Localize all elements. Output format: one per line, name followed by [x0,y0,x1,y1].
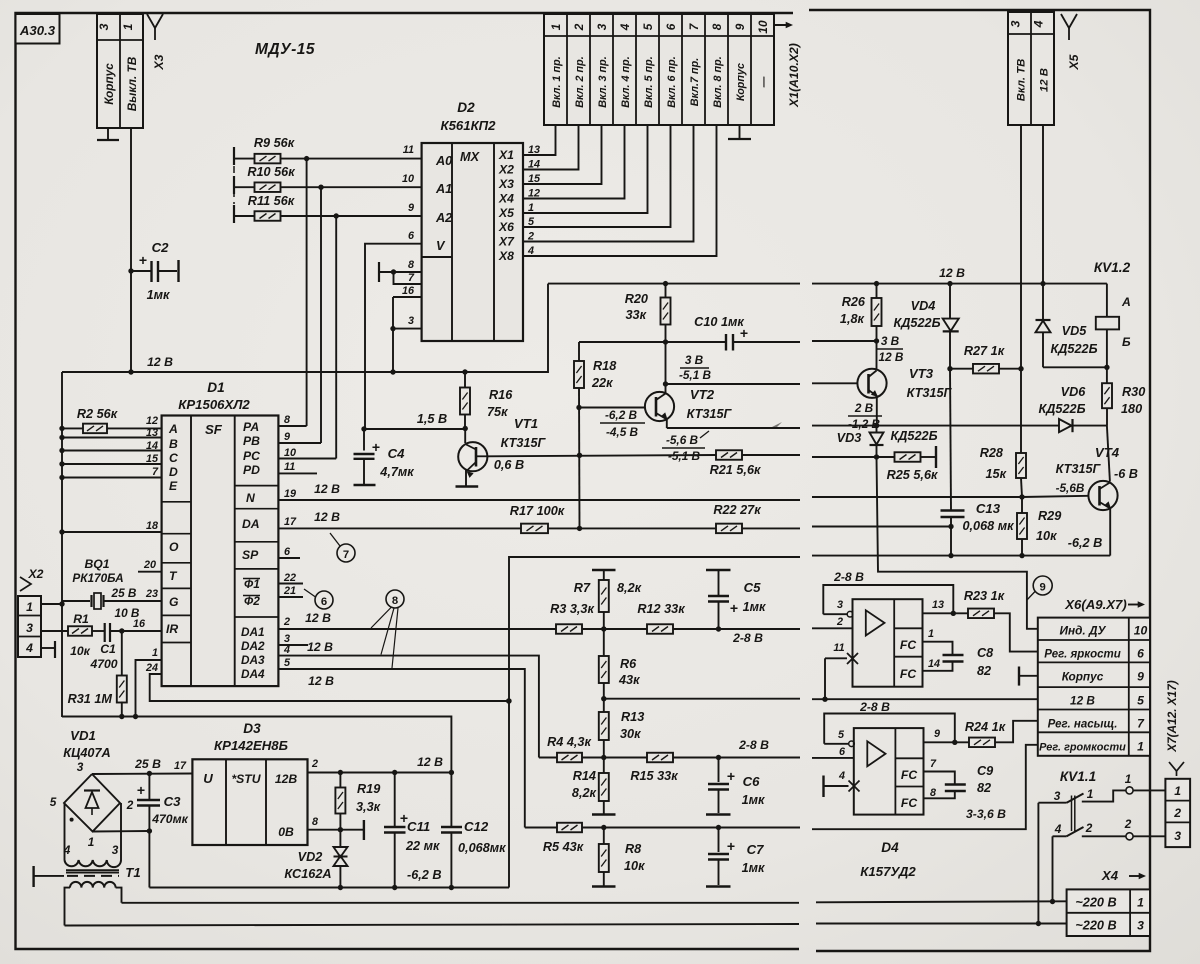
op-amp D4.2 K157UD2 [854,728,924,815]
svg-text:3: 3 [595,23,609,30]
resistor R31 1M [121,631,123,677]
svg-text:20: 20 [143,559,156,571]
svg-text:D2: D2 [457,100,475,115]
svg-text:1мк: 1мк [743,600,766,614]
wire D3 pin8 0V with bar [308,829,364,831]
svg-text:КЦ407А: КЦ407А [63,746,110,760]
rectifier VD1 KC407A [64,774,120,832]
capacitor C2 1mk [128,268,133,273]
svg-text:МХ: МХ [460,150,481,164]
svg-text:КС162А: КС162А [284,867,331,881]
wire bridge AC right [120,803,122,860]
capacitor C10 1mk [579,341,726,343]
capacitor C12 0.068mk [450,773,452,827]
svg-text:С10 1мк: С10 1мк [694,315,744,329]
svg-text:3: 3 [1054,789,1061,803]
svg-text:82: 82 [977,781,991,795]
svg-text:КТ315Г: КТ315Г [501,436,547,450]
svg-text:R7: R7 [574,581,591,595]
relay link dashes [1071,796,1073,832]
svg-text:7: 7 [408,272,415,284]
svg-text:КД522Б: КД522Б [893,316,940,330]
svg-text:4: 4 [25,641,33,655]
svg-text:VD5: VD5 [1062,324,1088,338]
svg-text:Рег. яркости: Рег. яркости [1044,649,1121,661]
wire D2 pin8 with terminal bar [379,271,422,273]
svg-text:VТ3: VТ3 [909,366,934,381]
svg-text:11: 11 [833,642,844,654]
svg-text:12 В: 12 В [939,266,965,280]
wire X2 pin1 to bus [41,603,62,605]
wire R22 line to C13 [812,526,951,528]
svg-text:R5 43к: R5 43к [543,840,584,854]
svg-text:SF: SF [205,422,223,437]
resistor R27 1k [950,368,973,370]
svg-text:Х2: Х2 [498,163,514,177]
svg-text:0,068мк: 0,068мк [458,841,506,855]
resistor R17 100k [521,524,548,534]
svg-text:Корпус: Корпус [1062,670,1104,684]
controller D1 KR1506HL2 [162,416,279,687]
svg-text:С3: С3 [164,794,182,809]
resistor R30 180 [1106,367,1108,383]
wire -6.2V line y557 [509,557,800,888]
svg-text:11: 11 [284,461,295,473]
wire N rail to VT4 base / R28 R29 [812,496,1022,498]
svg-text:Вкл. 4 пр.: Вкл. 4 пр. [620,56,632,107]
svg-text:Выкл. ТВ: Выкл. ТВ [125,56,139,111]
fork symbol X2 [20,577,31,591]
svg-text:Х6(А9.Х7): Х6(А9.Х7) [1064,597,1127,612]
svg-text:10: 10 [756,20,770,34]
svg-text:+: + [727,838,735,854]
svg-text:8: 8 [392,595,398,607]
svg-text:3: 3 [837,599,843,611]
contact 2 [1053,835,1067,837]
svg-text:1: 1 [121,23,135,30]
svg-text:R23 1к: R23 1к [964,589,1005,603]
svg-text:FС: FС [900,638,916,652]
ground under X3 pin 3 [107,128,109,139]
svg-text:R11 56к: R11 56к [248,194,295,208]
svg-text:1: 1 [1137,740,1144,754]
resistor R26 1.8k [874,281,879,286]
svg-text:SР: SР [242,548,259,562]
fork symbol X5 [1061,14,1077,28]
svg-text:Рег. насыщ.: Рег. насыщ. [1048,719,1118,731]
svg-text:РС: РС [243,449,260,463]
wire D1 pin19 N rail 12V [278,499,800,501]
svg-text:DА4: DА4 [241,667,265,681]
svg-text:+: + [137,782,145,798]
wire X2 pin4 terminal [41,647,55,649]
op2 pin7 / C9 82 [924,772,955,784]
svg-text:6: 6 [839,746,846,758]
svg-text:R8: R8 [625,842,642,856]
svg-text:*SТU: *SТU [231,772,261,786]
stub D1 pin6 SP [278,557,300,559]
svg-text:Вкл. 5 пр.: Вкл. 5 пр. [643,56,655,107]
dashed link R9-R11 terminals [233,166,235,204]
resistor R15 33k [604,757,647,759]
svg-text:N: N [246,491,256,505]
svg-text:С1: С1 [100,642,116,656]
svg-text:30к: 30к [620,727,641,741]
svg-text:10: 10 [402,173,414,185]
svg-text:КТ315Г: КТ315Г [1056,462,1102,476]
svg-text:12 В: 12 В [307,640,333,654]
svg-text:+: + [372,439,380,455]
diode VD6 KD522B on emitter line [812,425,1059,427]
svg-text:МДУ-15: МДУ-15 [255,41,315,58]
svg-text:+: + [727,768,735,784]
svg-text:R12 33к: R12 33к [637,602,685,616]
svg-text:А1: А1 [435,182,452,196]
wire D2 pin7 [394,272,422,284]
op2 pin9 output to R24 [924,741,970,743]
svg-text:14: 14 [928,658,940,670]
svg-text:R9 56к: R9 56к [254,136,295,150]
stub D1 pin11 PD [278,472,317,474]
stub D1 pin20 T [138,571,162,573]
resistor R10 56k [233,176,235,194]
svg-text:С2: С2 [152,240,170,255]
svg-text:Х7(А12. Х17): Х7(А12. Х17) [1165,680,1179,753]
svg-text:13: 13 [932,599,944,611]
resistor R13 30k [603,699,605,712]
transistor VT3 KT315G [812,382,857,384]
svg-text:16: 16 [402,285,415,297]
svg-text:12 В: 12 В [147,355,173,369]
connector X6(A9.X7) [1038,618,1150,756]
wire X5 pin3 down to R28 [1020,125,1022,453]
fork symbol X3 [147,14,163,28]
svg-text:РD: РD [243,463,260,477]
svg-text:4: 4 [618,23,632,31]
svg-text:8,2к: 8,2к [617,581,642,595]
wire bridge bottom node [93,830,150,833]
wire A0 column to D1 PA [306,159,308,426]
svg-text:R16: R16 [489,388,513,402]
diode VD3 KD522B [876,426,878,432]
svg-text:Е: Е [169,479,178,493]
svg-text:R13: R13 [621,710,644,724]
svg-text:R18: R18 [593,359,617,373]
svg-text:4: 4 [1032,20,1046,28]
svg-text:РК170БА: РК170БА [72,571,123,585]
svg-text:FС: FС [901,768,917,782]
crystal BQ1 RK170BA [62,600,90,602]
svg-text:VT2: VT2 [690,387,715,402]
svg-text:Х4: Х4 [1101,868,1119,883]
svg-text:10: 10 [284,447,296,459]
svg-text:R17 100к: R17 100к [510,504,565,518]
svg-text:1: 1 [152,647,158,659]
resistor R2 56k [62,427,83,429]
capacitor C5 1mk [706,569,731,571]
svg-text:6: 6 [321,596,327,608]
svg-text:2: 2 [311,758,318,770]
svg-text:33к: 33к [625,308,646,322]
op2 pin4 input with X and bar [822,776,824,798]
svg-text:Х6: Х6 [498,220,514,234]
svg-text:1: 1 [1137,896,1144,910]
svg-text:9: 9 [1040,582,1046,594]
svg-text:С8: С8 [977,646,994,660]
svg-text:Вкл. ТВ: Вкл. ТВ [1016,59,1028,102]
resistor R11 56k [233,205,235,223]
wire D1 pin18 O [62,531,162,533]
svg-text:15к: 15к [985,467,1006,481]
op1 pin2 input wire from DA1 rail [812,627,853,629]
svg-text:5: 5 [641,23,655,30]
resistor R28 15k [1020,452,1022,454]
svg-text:КР142ЕН8Б: КР142ЕН8Б [214,738,288,753]
svg-text:1мк: 1мк [147,288,170,302]
svg-text:А: А [168,422,178,436]
svg-text:25 В: 25 В [111,586,137,600]
op1 pin1 / C8 82 [923,642,953,654]
svg-text:R27 1к: R27 1к [964,344,1005,358]
svg-text:10к: 10к [1036,529,1057,543]
svg-text:А0: А0 [435,154,452,168]
svg-text:DА2: DА2 [241,639,265,653]
svg-text:~220 В: ~220 В [1075,919,1116,933]
svg-text:2 В: 2 В [854,401,874,415]
svg-text:Т1: Т1 [125,865,140,880]
svg-text:-5,1 В: -5,1 В [679,368,712,382]
op1 pin13 output to R23 [923,612,969,614]
svg-text:8: 8 [312,816,318,828]
svg-text:VD2: VD2 [298,850,323,864]
resistor R3 3.3k [556,624,582,634]
svg-text:—: — [758,76,770,88]
svg-text:82: 82 [977,664,991,678]
svg-text:D3: D3 [243,721,261,736]
svg-text:VТ4: VТ4 [1095,445,1120,460]
wire bridge AC left [64,803,66,860]
zener VD2 KS162A [339,830,341,847]
border frame left sheet [16,13,800,949]
svg-text:8,2к: 8,2к [572,786,597,800]
svg-text:1мк: 1мк [742,793,765,807]
svg-text:1: 1 [88,835,95,849]
svg-text:R10 56к: R10 56к [247,165,295,179]
resistor R8 10k [603,828,605,845]
svg-text:4700: 4700 [89,657,117,671]
connector X2 [18,596,41,657]
svg-text:Корпус: Корпус [102,63,116,105]
svg-text:IR: IR [166,622,178,636]
svg-text:8: 8 [710,23,724,30]
wire bus bottom to 12V output rail [62,717,451,773]
svg-text:VD6: VD6 [1061,385,1087,399]
svg-text:2-8 В: 2-8 В [738,738,769,752]
resistor R12 33k [647,624,673,634]
transistor VT2 KT315G [579,407,645,409]
svg-text:Х3: Х3 [498,177,514,191]
svg-text:7: 7 [152,466,159,478]
svg-text:3: 3 [26,621,33,635]
resistor R18 22k [578,342,580,361]
svg-text:R3 3,3к: R3 3,3к [550,602,594,616]
svg-text:Х8: Х8 [498,249,514,263]
svg-text:Х5: Х5 [1067,54,1081,70]
svg-text:О: О [169,540,179,554]
svg-text:Вкл. 3 пр.: Вкл. 3 пр. [597,56,609,107]
resistor R22 27k [716,524,742,534]
ground under X1 pin 9 [739,125,741,138]
svg-text:7: 7 [343,549,349,561]
svg-text:8: 8 [930,787,936,799]
resistor R5 43k [557,823,582,833]
wire D1 pin5 DA4 to R5 [278,669,524,828]
svg-text:КД522Б: КД522Б [1050,342,1097,356]
svg-text:22: 22 [283,572,296,584]
resistor R23 1k [968,609,994,619]
svg-text:VD4: VD4 [911,299,936,313]
svg-text:R4 4,3к: R4 4,3к [547,735,591,749]
relay coil KV1.2 [1106,284,1108,317]
wire 2-8V feedback loop op1 [823,585,953,614]
svg-text:17: 17 [174,760,187,772]
svg-text:В: В [169,437,178,451]
svg-text:R14: R14 [573,769,596,783]
svg-text:17: 17 [284,516,297,528]
wire X6 Korpus bar [1019,675,1038,677]
svg-text:3 В: 3 В [685,353,704,367]
svg-text:Б: Б [1122,335,1131,349]
resistor R7 8.2k [592,569,616,571]
svg-text:8: 8 [408,259,414,271]
svg-text:6: 6 [284,546,291,558]
svg-text:Х4: Х4 [498,192,514,206]
transformer T1 primary coil [70,882,116,888]
svg-text:3: 3 [1174,829,1181,843]
capacitor C11 22mk [394,773,396,827]
arrow X1 [774,24,791,26]
svg-text:А30.3: А30.3 [19,23,56,38]
svg-text:12В: 12В [275,772,298,786]
wire VT2 collector line to right sheet [666,383,801,385]
svg-text:7: 7 [930,758,937,770]
op2 pin5 input [824,743,849,745]
resistor R25 5.6k wire from R21 [812,456,877,458]
wire D2 pin6 V to VT1 base [365,244,465,429]
svg-text:R1: R1 [73,612,89,626]
svg-text:0,068 мк: 0,068 мк [962,519,1014,533]
svg-text:4: 4 [838,770,845,782]
svg-text:1: 1 [1087,787,1094,801]
capacitor C1 4700 [92,630,105,632]
svg-text:-6,2 В: -6,2 В [1068,536,1103,550]
stub D1 pin22 [278,583,303,585]
svg-text:12 В: 12 В [1070,694,1095,708]
svg-text:1,8к: 1,8к [840,312,865,326]
capacitor C7 1mk [718,828,720,853]
wire bottom rail 827 [525,827,557,829]
resistor R20 33k [663,281,668,286]
wire C10 line to R26 [812,340,877,342]
svg-text:1: 1 [26,600,33,614]
svg-text:2: 2 [1085,821,1093,835]
svg-text:R24 1к: R24 1к [965,720,1006,734]
svg-text:3-3,6 В: 3-3,6 В [966,807,1006,821]
wire mains lower right [816,923,1067,925]
svg-text:КД522Б: КД522Б [890,429,937,443]
svg-text:1: 1 [549,24,563,31]
svg-text:Х1: Х1 [498,148,514,162]
svg-text:2-8 В: 2-8 В [859,700,890,714]
svg-text:12 В: 12 В [879,350,904,364]
svg-text:КV1.1: КV1.1 [1060,769,1096,784]
svg-text:3: 3 [408,315,414,327]
svg-text:DА3: DА3 [241,653,265,667]
svg-text:РА: РА [243,420,259,434]
svg-text:10к: 10к [70,644,91,658]
wire A1 column to D1 PB [320,187,322,443]
svg-text:Корпус: Корпус [735,63,747,101]
svg-text:DА: DА [242,517,260,531]
wire rail 2-8V row4 [812,698,1038,700]
svg-text:R29: R29 [1038,509,1061,523]
wire D1 pin2 DA1 rail [278,628,556,630]
svg-text:3: 3 [97,23,111,30]
wire bridge top to D3 25V [92,773,192,776]
svg-text:VT1: VT1 [514,416,538,431]
svg-text:R15 33к: R15 33к [630,769,678,783]
svg-text:D: D [169,465,178,479]
wire D3 pin2 12V rail [308,772,452,774]
svg-text:D1: D1 [207,380,224,395]
svg-text:С11: С11 [407,819,430,834]
svg-text:0,6 В: 0,6 В [494,458,524,472]
svg-text:КТ315Г: КТ315Г [687,407,733,421]
wire -6.2V line right sheet [812,555,1110,557]
svg-text:25 В: 25 В [134,757,161,771]
wire 12V rail right sheet [812,283,1107,285]
svg-text:3: 3 [1009,20,1023,27]
svg-text:12 В: 12 В [314,482,340,496]
resistor R4 4.3k [539,757,557,759]
wire KV1.1-3 down to mains [1037,803,1039,924]
svg-text:23: 23 [145,588,158,600]
resistor R9 56k [233,147,235,165]
wire D1 pin9 PB [278,442,321,444]
capacitor C13 0.068mk [950,369,951,510]
svg-text:1: 1 [928,628,934,640]
svg-text:1мк: 1мк [742,861,765,875]
svg-text:С: С [169,451,178,465]
wire mains upper right [816,901,1067,902]
transformer T1 core [66,869,119,871]
svg-text:180: 180 [1121,402,1142,416]
regulator D3 KR142EN8B [192,759,307,845]
svg-text:-6,2 В: -6,2 В [605,408,638,422]
node circle 6 [315,591,333,609]
svg-text:4: 4 [1054,822,1062,836]
contact 1 [1038,802,1066,804]
svg-text:2: 2 [283,616,290,628]
wires D1 pins B C D E [62,437,162,439]
svg-text:12 В: 12 В [305,611,331,625]
svg-text:75к: 75к [487,405,508,419]
stub D1 pin21 [278,596,303,598]
svg-text:Х2: Х2 [28,567,44,581]
capacitor C3 470mk [148,774,150,800]
wire D1 pin17 DA rail [278,527,521,529]
svg-text:-5,6В: -5,6В [1056,481,1085,495]
